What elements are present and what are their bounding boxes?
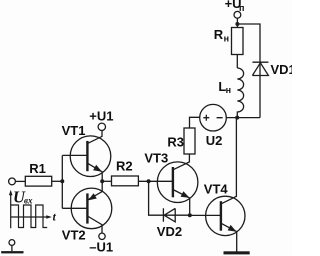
diode VD2 — [163, 208, 175, 222]
svg-text:+U1: +U1 — [89, 108, 113, 123]
wire Rn to Ln — [236, 55, 238, 69]
wire base bus — [61, 155, 63, 208]
svg-text:п: п — [239, 3, 244, 13]
resistor Rn — [232, 28, 244, 55]
terminal input — [9, 178, 16, 185]
wire VT2 base — [62, 207, 87, 209]
node base bus junction — [60, 179, 64, 183]
wire VT4 base — [190, 214, 221, 216]
transistor VT2 — [71, 181, 112, 233]
terminal +U1 — [98, 123, 105, 130]
wire R2 to VT3 base — [138, 180, 173, 182]
label VT2 — [62, 228, 86, 243]
svg-text:t: t — [53, 211, 57, 223]
label U2 — [206, 133, 223, 148]
label R3 — [167, 135, 184, 150]
svg-text:U2: U2 — [206, 133, 223, 148]
wire emitters to R2 — [102, 180, 111, 182]
wire down to VD2 — [149, 181, 190, 215]
wire terminal to Rn — [236, 18, 238, 27]
wire U2 to R3 — [190, 117, 200, 128]
label VD2 — [157, 224, 182, 239]
label -U1 — [89, 239, 113, 254]
node emitter junction — [100, 179, 104, 183]
svg-text:–U1: –U1 — [89, 239, 113, 254]
svg-text:R2: R2 — [116, 159, 133, 174]
resistor R1 — [25, 176, 51, 186]
source U2 — [200, 104, 227, 131]
wire input to R1 — [15, 180, 25, 182]
inductor Ln — [237, 68, 243, 118]
label VT4 — [204, 181, 229, 196]
label Uvx — [13, 188, 33, 207]
label R1 — [29, 161, 46, 176]
terminal input ground — [9, 240, 15, 246]
svg-text:VT1: VT1 — [62, 123, 86, 138]
transistor VT3 — [157, 154, 198, 213]
waveform square wave — [11, 205, 48, 228]
resistor R3 — [184, 128, 195, 154]
label R2 — [116, 159, 133, 174]
svg-text:н: н — [224, 33, 229, 43]
svg-text:VT3: VT3 — [144, 151, 168, 166]
transistor VT4 — [206, 118, 245, 252]
wire to ground left — [11, 245, 13, 251]
svg-text:VT2: VT2 — [62, 228, 86, 243]
wire top to VD1 — [237, 24, 260, 118]
label Ln — [218, 79, 231, 95]
node junction mid — [235, 116, 239, 120]
input waveform axis — [9, 190, 52, 229]
diode VD1 — [252, 62, 268, 75]
svg-text:R: R — [214, 27, 224, 42]
ground right — [224, 251, 250, 254]
label Rn — [214, 27, 229, 44]
svg-text:R1: R1 — [29, 161, 46, 176]
node +Un label — [225, 0, 245, 13]
ground left — [1, 251, 23, 253]
terminal +Un — [234, 11, 241, 18]
terminal -U1 — [99, 233, 105, 239]
node junction top — [235, 22, 239, 26]
wire R1 to base bus — [52, 180, 63, 182]
svg-text:VD1: VD1 — [271, 62, 293, 77]
svg-text:R3: R3 — [167, 135, 184, 150]
svg-text:вх: вх — [24, 195, 33, 205]
label VT3 — [144, 151, 168, 166]
node R2 junction — [147, 179, 151, 183]
label VD1 — [271, 62, 296, 77]
wire VT1 base — [62, 154, 87, 156]
label t — [53, 211, 57, 223]
label +U1 — [89, 108, 113, 123]
svg-text:VT4: VT4 — [204, 181, 229, 196]
svg-text:н: н — [226, 85, 231, 95]
svg-text:VD2: VD2 — [157, 224, 182, 239]
wire U2 to VD1 bottom — [226, 117, 260, 119]
label VT1 — [62, 123, 86, 138]
resistor R2 — [112, 176, 139, 186]
transistor VT1 — [70, 130, 111, 181]
node VD2 junction — [188, 213, 192, 217]
